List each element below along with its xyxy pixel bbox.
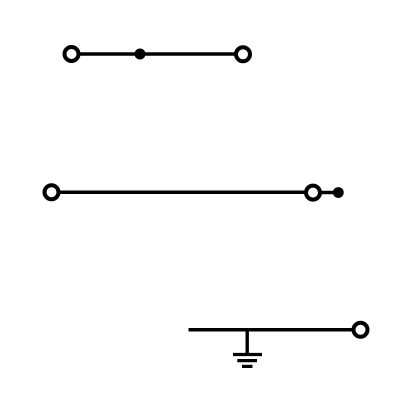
junction dot (middle deck tap node) (333, 187, 344, 198)
terminal circle (upper deck, left clamp) (65, 47, 79, 61)
wire (ground deck conductor) (189, 328, 355, 332)
terminal circle (middle deck, left clamp) (45, 185, 59, 199)
terminal circle (upper deck, right clamp) (236, 47, 250, 61)
ground (233, 330, 262, 367)
wire (upper deck conductor) (78, 52, 236, 56)
wire (middle deck conductor) (58, 191, 306, 195)
junction dot (upper deck tap node) (135, 49, 146, 60)
wire (middle deck stub to tap node) (320, 191, 338, 195)
terminal circle (middle deck, right clamp) (306, 186, 320, 200)
terminal circle (ground deck, right clamp) (354, 323, 368, 337)
